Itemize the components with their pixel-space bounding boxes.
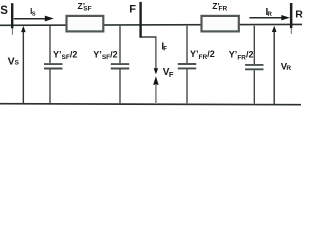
current arrow IR [249, 15, 290, 20]
svg-text:S: S [0, 5, 8, 17]
svg-text:F: F [129, 4, 136, 16]
bus bar F [139, 2, 141, 38]
svg-text:FR: FR [219, 6, 228, 13]
svg-text:S: S [15, 60, 20, 67]
svg-text:S: S [32, 12, 36, 18]
bus bar S [11, 3, 13, 35]
svg-text:R: R [268, 12, 273, 18]
voltage arrow Vs [21, 26, 26, 104]
svg-text:V: V [8, 55, 15, 67]
capacitor C1 (Y'SF/2 left) [44, 26, 63, 103]
capacitor C2 (Y'SF/2 right) [111, 26, 129, 103]
impedance box Z'FR [202, 16, 239, 32]
wire top rail [0, 23, 302, 26]
svg-text:F: F [163, 47, 167, 53]
bus bar R [290, 3, 293, 34]
capacitor C3 (Y'FR/2 left) [178, 26, 196, 104]
current arrow IF (down) [154, 37, 158, 74]
voltage arrow VF (up from ground) [153, 76, 158, 104]
svg-text:R: R [286, 65, 291, 72]
impedance box Z'SF [67, 16, 104, 32]
wire jog at F node [141, 36, 157, 38]
svg-text:F: F [169, 70, 174, 79]
wire bottom rail (ground return) [0, 104, 301, 105]
voltage arrow VR [272, 26, 277, 105]
svg-text:SF: SF [83, 6, 91, 13]
svg-text:R: R [295, 9, 303, 21]
current arrow Is [14, 16, 54, 22]
capacitor C4 (Y'FR/2 right) [245, 26, 263, 104]
